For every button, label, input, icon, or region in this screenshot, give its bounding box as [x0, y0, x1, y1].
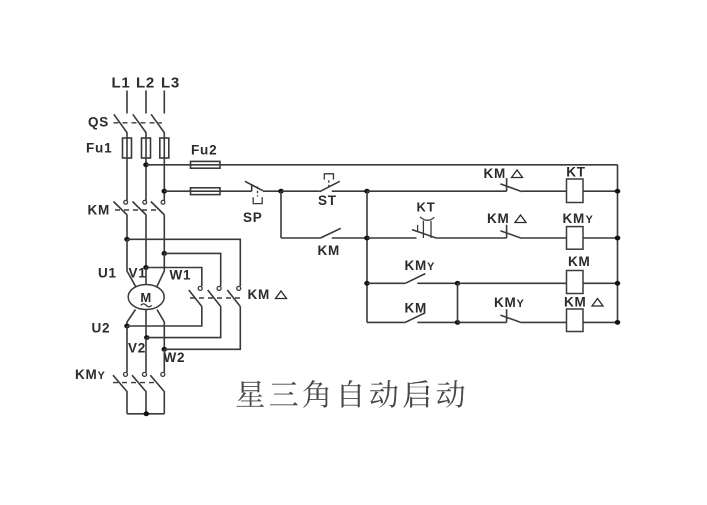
- label L2: [136, 75, 155, 92]
- label KM holding: [318, 243, 341, 258]
- label KM NO row4: [405, 301, 428, 316]
- svg-text:Y: Y: [586, 214, 594, 226]
- QS linkage dashed: [114, 122, 163, 124]
- pushbutton ST: [281, 174, 367, 192]
- contactor KMdelta pole 2: [208, 286, 221, 306]
- wire L1 Fu1-KM: [126, 158, 128, 201]
- svg-text:KM: KM: [405, 301, 428, 316]
- label ST: [318, 193, 337, 208]
- switch QS pole 1: [114, 114, 127, 132]
- coil KT: [567, 179, 584, 203]
- wire row2 b: [437, 237, 507, 239]
- wire W2-KMY: [163, 349, 165, 372]
- label U1: [98, 266, 117, 281]
- node W2: [162, 347, 168, 352]
- contactor KMdelta pole 3: [227, 286, 240, 306]
- wire row3 b: [417, 282, 457, 284]
- wire rail1: [146, 164, 618, 166]
- KM linkage dashed: [115, 209, 160, 211]
- node V2: [144, 335, 150, 340]
- svg-text:KM: KM: [75, 367, 98, 382]
- wire L2 Fu1-KM: [145, 158, 147, 201]
- node rail row2: [615, 236, 621, 241]
- label KM coil: [568, 254, 591, 269]
- switch QS pole 3: [151, 114, 164, 132]
- wire L3 drop: [163, 91, 165, 114]
- wire KMdelta2 to V2: [147, 307, 221, 338]
- wire row4 a: [367, 321, 405, 323]
- wire row2 d: [583, 237, 618, 239]
- label V1: [129, 266, 147, 281]
- label KMY coil: [563, 211, 594, 226]
- wire U2-KMY: [126, 326, 128, 372]
- wire V2 motor lead: [145, 310, 147, 338]
- label Fu1: [86, 141, 112, 156]
- contactor KMY pole 1: [113, 372, 128, 391]
- node V1 tap: [143, 265, 149, 270]
- wire QS2-Fu1: [145, 132, 147, 139]
- wire V1 to KMdelta pole1: [146, 268, 202, 287]
- wire row1 b: [522, 190, 567, 192]
- svg-text:Fu1: Fu1: [86, 141, 112, 156]
- svg-text:U1: U1: [98, 266, 117, 281]
- contactor KM pole 2: [133, 200, 147, 214]
- svg-text:SP: SP: [243, 210, 263, 225]
- fuse Fu1 b: [142, 138, 151, 158]
- wire W2 motor lead: [157, 310, 164, 350]
- node U1 tap: [124, 237, 130, 242]
- svg-text:Y: Y: [427, 261, 435, 273]
- wire U1 to KMdelta pole3: [127, 239, 240, 286]
- svg-text:W1: W1: [170, 268, 192, 283]
- node star point: [144, 411, 150, 416]
- label QS: [88, 115, 109, 130]
- wire row4 b: [417, 321, 457, 323]
- wire right rail: [617, 165, 619, 323]
- svg-text:M: M: [140, 290, 152, 305]
- wire L3 KM-W1: [163, 214, 165, 253]
- label KMdelta NC row1: [484, 166, 523, 181]
- fuse Fu1 a: [123, 138, 132, 158]
- contact KM holding: [281, 228, 367, 238]
- svg-text:W2: W2: [164, 350, 186, 365]
- svg-text:V2: V2: [128, 341, 146, 356]
- node bus row2: [364, 236, 370, 241]
- coil KM: [567, 271, 584, 294]
- wire rail2 seg1: [164, 190, 251, 192]
- node bus top: [364, 189, 370, 194]
- wire row1 c: [583, 190, 618, 192]
- label U2: [92, 321, 111, 336]
- contactor KM pole 1: [114, 200, 128, 214]
- coil KMY: [567, 227, 584, 250]
- svg-text:Y: Y: [98, 370, 106, 382]
- KMdelta linkage dashed: [190, 297, 243, 299]
- svg-text:QS: QS: [88, 115, 109, 130]
- node L2 rail1 tap: [143, 162, 149, 167]
- node SP out: [278, 189, 284, 194]
- svg-text:KM: KM: [494, 295, 517, 310]
- label KT coil: [566, 165, 586, 180]
- label KMdelta coil: [564, 295, 603, 310]
- wire QS3-Fu1: [163, 132, 165, 139]
- fuse Fu2 a: [191, 161, 221, 168]
- node rail row3: [615, 281, 621, 286]
- fuse Fu2 b: [191, 188, 221, 195]
- wire left bus: [366, 191, 368, 322]
- wire L2 drop: [145, 91, 147, 114]
- wire KMY3 out: [163, 391, 165, 414]
- svg-text:ST: ST: [318, 193, 337, 208]
- contact KMY NO: [405, 274, 425, 284]
- svg-text:KM: KM: [318, 243, 341, 258]
- label Fu2: [191, 143, 217, 158]
- wire W1 motor lead: [157, 253, 165, 286]
- wire node connector: [457, 283, 459, 322]
- label KMY star: [75, 367, 106, 382]
- contactor KMY pole 3: [150, 372, 165, 391]
- svg-text:KM: KM: [563, 211, 586, 226]
- svg-text:KM: KM: [484, 166, 507, 181]
- svg-text:KM: KM: [248, 287, 271, 302]
- wire row2 a: [367, 237, 417, 239]
- wire V2-KMY: [145, 338, 147, 373]
- wire row1 a: [367, 190, 507, 192]
- svg-text:KM: KM: [487, 211, 510, 226]
- label KMdelta NC row2: [487, 211, 526, 226]
- wire L1 drop: [126, 91, 128, 114]
- contact KMY NC row4: [500, 309, 521, 323]
- wire row4 c: [458, 321, 507, 323]
- node row3: [455, 281, 461, 286]
- svg-text:KM: KM: [405, 258, 428, 273]
- wire star point bar: [127, 413, 164, 415]
- pushbutton SP: [245, 181, 263, 203]
- wire row3 a: [367, 282, 405, 284]
- contact KM NO row4: [405, 313, 425, 323]
- svg-text:KT: KT: [566, 165, 586, 180]
- wire U2 motor lead: [127, 310, 136, 327]
- wire row3 c: [458, 282, 567, 284]
- coil KMdelta: [567, 309, 584, 332]
- node rail row4: [615, 320, 621, 325]
- label L3: [161, 75, 180, 92]
- wire KMY1 out: [126, 391, 128, 414]
- contact KMdelta NC row1: [500, 178, 521, 192]
- label L1: [111, 75, 130, 92]
- switch QS pole 2: [133, 114, 146, 132]
- label W2: [164, 350, 186, 365]
- wire KMY2 out: [145, 391, 147, 414]
- node row4: [455, 320, 461, 325]
- wire row2 c: [522, 237, 567, 239]
- wire QS1-Fu1: [126, 132, 128, 139]
- fuse Fu1 c: [160, 138, 169, 158]
- svg-text:L3: L3: [161, 75, 180, 92]
- wire ST drop: [280, 191, 282, 238]
- node W1 tap: [162, 251, 168, 256]
- label KMY NC row4: [494, 295, 525, 310]
- wire L3 Fu1-KM: [163, 158, 165, 201]
- svg-text:KM: KM: [564, 295, 587, 310]
- title text 星三角自动启动: [237, 380, 465, 408]
- wire KMdelta1 to U2: [127, 307, 202, 327]
- node bus row3: [364, 281, 370, 286]
- svg-text:Y: Y: [517, 298, 525, 310]
- wire W1 to KMdelta pole2: [164, 253, 220, 286]
- svg-text:U2: U2: [92, 321, 111, 336]
- label KMY NO: [405, 258, 436, 273]
- contactor KMY pole 2: [132, 372, 147, 391]
- wire V1 motor lead: [145, 268, 147, 286]
- svg-text:L2: L2: [136, 75, 155, 92]
- wire row4 e: [583, 321, 618, 323]
- label SP: [243, 210, 263, 225]
- node rail row1: [615, 189, 621, 194]
- wire SP-node: [263, 190, 281, 192]
- node U2: [124, 324, 130, 329]
- wire L2 KM-V1: [145, 214, 147, 267]
- contactor KMdelta pole 1: [189, 286, 202, 306]
- wire KMdelta3 to W2: [164, 307, 240, 350]
- svg-text:KT: KT: [417, 200, 436, 215]
- motor M: [128, 285, 164, 310]
- svg-text:L1: L1: [111, 75, 130, 92]
- svg-text:Fu2: Fu2: [191, 143, 217, 158]
- node L3 rail2 tap: [162, 189, 168, 194]
- wire row3 d: [583, 282, 618, 284]
- label V2: [128, 341, 146, 356]
- label KMdelta motor: [248, 287, 287, 302]
- contact KT delayed: [412, 217, 437, 238]
- label KT contact: [417, 200, 436, 215]
- wire U1 motor lead: [127, 239, 136, 286]
- wire row4 d: [522, 321, 567, 323]
- label KM main: [88, 203, 111, 218]
- wire L1 KM-U1: [126, 214, 128, 239]
- KMY linkage dashed: [113, 382, 158, 384]
- svg-text:KM: KM: [568, 254, 591, 269]
- contact KMdelta NC row2: [500, 225, 521, 239]
- label W1: [170, 268, 192, 283]
- svg-text:KM: KM: [88, 203, 111, 218]
- contactor KM pole 3: [151, 200, 165, 214]
